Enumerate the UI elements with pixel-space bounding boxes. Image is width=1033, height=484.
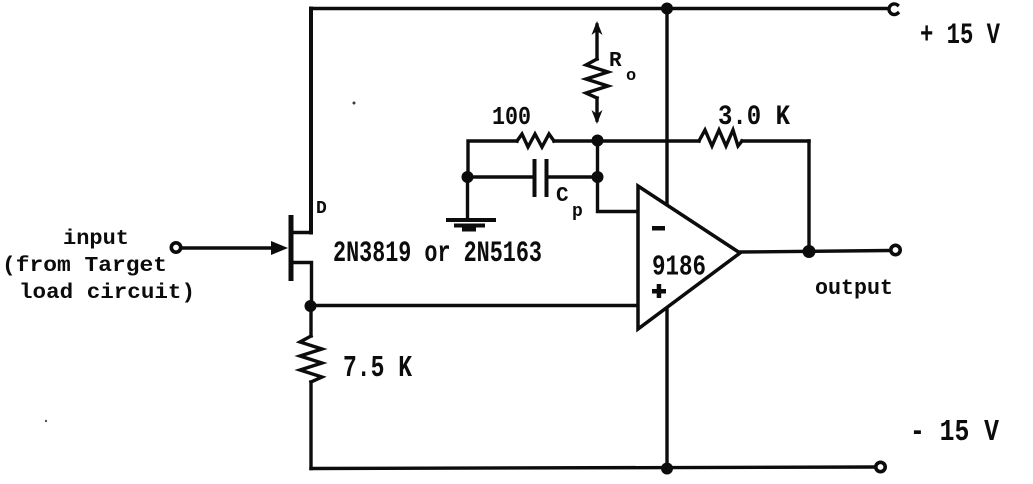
svg-text:C: C	[556, 185, 569, 208]
svg-text:- 15 V: - 15 V	[910, 415, 999, 450]
wire input lead with arrow into gate	[183, 246, 272, 249]
speck artifact	[353, 102, 356, 105]
wire node to Cp node	[596, 141, 599, 178]
drain lead	[293, 231, 311, 234]
speck artifact	[45, 420, 47, 422]
svg-text:p: p	[572, 202, 583, 222]
terminal -15V (open circle)	[876, 462, 885, 471]
node junction Cp right	[592, 171, 604, 183]
svg-text:(from Target: (from Target	[2, 255, 167, 278]
wire feedback vertical down to output node	[807, 141, 810, 252]
resistor 7.5K (vertical zigzag)	[300, 336, 322, 382]
capacitor Cp	[533, 159, 549, 197]
wire main vertical from top rail to bottom rail	[665, 9, 668, 469]
svg-text:output: output	[815, 276, 893, 301]
node junction output/feedback	[803, 245, 816, 258]
wire 7.5K to bottom rail	[309, 382, 312, 469]
svg-text:input: input	[63, 228, 129, 251]
gate bar	[289, 215, 294, 281]
terminal input (open circle)	[171, 243, 180, 252]
terminal output (open circle)	[891, 245, 900, 254]
node junction 100/Ro/3.0K	[592, 135, 604, 147]
svg-text:100: 100	[492, 102, 531, 132]
svg-text:3.0 K: 3.0 K	[718, 102, 790, 133]
source lead	[293, 263, 312, 306]
terminal +15V (open circle, gap on right)	[889, 4, 898, 15]
wire node row to 3.0K	[598, 139, 700, 142]
wire Cp right lead	[549, 175, 598, 178]
wire bottom rail	[311, 467, 875, 469]
transistor Q1 JFET 2N3819	[289, 215, 312, 305]
wire source node down to 7.5K	[309, 306, 312, 336]
resistor 3.0K (horizontal zigzag)	[699, 130, 742, 146]
wire minus input from Cp node to op-amp	[598, 177, 639, 212]
svg-text:D: D	[316, 199, 327, 219]
wire plus input from source node to op-amp	[311, 304, 639, 307]
svg-text:2N3819 or 2N5163: 2N3819 or 2N5163	[333, 237, 542, 271]
wire left vertical from top rail to JFET drain	[309, 9, 313, 233]
resistor Ro (vertical, arrows both ends)	[586, 21, 608, 124]
wire output from op-amp apex	[740, 251, 890, 253]
svg-text:R: R	[609, 50, 622, 73]
label minus input	[652, 226, 665, 231]
wire 3.0K to feedback corner	[742, 139, 809, 142]
svg-text:+ 15 V: + 15 V	[920, 19, 1000, 53]
svg-text:9186: 9186	[652, 251, 706, 284]
resistor 100 (horizontal zigzag)	[517, 134, 554, 147]
wire top rail from left vertical to +15V terminal	[311, 7, 886, 10]
wire node row left segment (corner to 100 ohm)	[468, 141, 517, 177]
wire 100 ohm to node	[554, 139, 598, 142]
svg-text:o: o	[626, 67, 636, 86]
svg-text:7.5 K: 7.5 K	[343, 351, 412, 386]
label plus input	[652, 284, 666, 298]
ground	[448, 220, 494, 230]
node junction source	[305, 300, 317, 312]
svg-text:load circuit): load circuit)	[19, 282, 195, 305]
node junction bottom rail / main vertical	[661, 463, 673, 475]
wire ground stem	[466, 177, 469, 218]
node junction top rail / main vertical	[661, 3, 673, 15]
op-amp U1 9186	[638, 186, 740, 329]
node junction Cp left	[462, 171, 474, 183]
wire Cp left lead	[468, 175, 533, 178]
